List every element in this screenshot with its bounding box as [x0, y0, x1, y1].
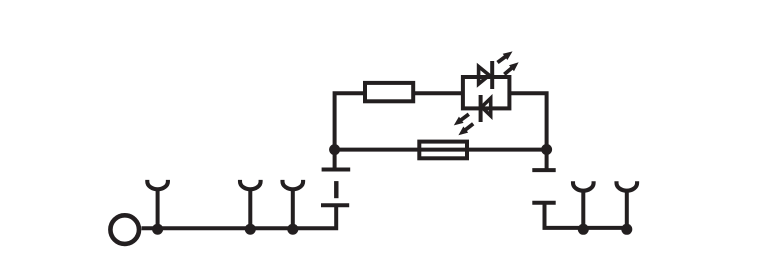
disconnect S2 upper contact bar	[532, 168, 555, 172]
resistor R1	[365, 83, 413, 101]
contact fork K5	[617, 181, 638, 190]
wire stub dot to S1 upper bar	[333, 150, 337, 172]
disconnect S1 lower contact bar	[321, 203, 349, 207]
wire stub dot to S2 upper bar	[545, 150, 549, 173]
node J3	[287, 224, 298, 235]
disconnect S1 plug blade	[334, 181, 338, 198]
wire resistor to LED block	[413, 91, 463, 95]
LED D1 triangle (anode left, pointing right)	[479, 67, 490, 85]
contact fork K1	[147, 180, 168, 189]
light emission arrow A3 of D2	[451, 111, 471, 128]
contact fork K2	[240, 180, 261, 189]
contact fork K3	[283, 180, 304, 189]
terminal socket P1 (test plug circle)	[110, 215, 139, 244]
node A (left junction)	[329, 144, 340, 155]
node J5	[621, 224, 632, 235]
wire stem of contact K3	[291, 189, 295, 229]
node J2	[245, 224, 256, 235]
node J4	[578, 224, 589, 235]
disconnect S1 upper contact bar	[322, 168, 351, 172]
wire stem of contact K1	[156, 189, 160, 229]
wire middle branch	[335, 148, 547, 152]
wire stem of contact K5	[625, 190, 629, 229]
LED D2 cathode bar	[479, 95, 483, 122]
wire bottom-right bus from S2 lower bar	[545, 203, 628, 228]
light emission arrow A2 of D1	[502, 59, 521, 77]
fuse F1	[419, 142, 467, 159]
contact fork K4	[573, 181, 594, 190]
disconnect S2 lower contact bar	[532, 201, 555, 205]
wire stem of contact K4	[581, 190, 585, 229]
wire bottom-left bus with riser to disconnect lower contact	[142, 205, 337, 228]
light emission arrow A1 of D1	[495, 48, 515, 65]
LED D1 cathode bar	[490, 61, 494, 89]
node J1	[152, 224, 163, 235]
wire stem of contact K2	[248, 189, 252, 229]
node B (right junction)	[541, 144, 552, 155]
wire left riser and top branch to resistor	[335, 93, 365, 149]
LED block frame	[463, 77, 510, 108]
wire LED block to right riser	[509, 93, 547, 149]
LED D2 triangle (pointing left)	[482, 98, 491, 116]
light emission arrow A4 of D2	[456, 121, 476, 139]
